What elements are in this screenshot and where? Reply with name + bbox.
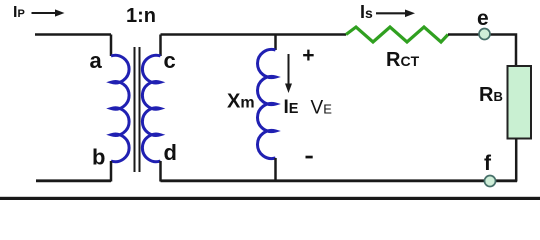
svg-text:IE: IE (284, 97, 299, 118)
label - polarity (306, 156, 313, 159)
svg-text:a: a (90, 48, 103, 73)
arrow Is current direction (376, 10, 415, 18)
arrow IE excitation current (285, 54, 292, 93)
wire secondary top stub (159, 35, 162, 57)
svg-text:Is: Is (360, 2, 373, 22)
transformer core line right (139, 47, 141, 172)
wire primary top (35, 33, 111, 36)
transformer T1 secondary winding c-d (142, 55, 160, 161)
resistor RCT zigzag (346, 27, 448, 42)
svg-text:1:n: 1:n (126, 5, 156, 27)
wire primary top drop to winding a (110, 35, 113, 57)
svg-text:Xm: Xm (227, 91, 255, 113)
svg-text:c: c (164, 48, 176, 73)
wire RB bottom (515, 139, 518, 182)
arrow IP current direction (32, 9, 65, 16)
svg-text:e: e (477, 7, 489, 30)
svg-text:d: d (164, 140, 177, 165)
svg-text:f: f (484, 152, 492, 175)
bottom horizontal rule (0, 197, 540, 200)
transformer core line left (134, 47, 136, 172)
wire top right to RB (448, 35, 516, 67)
node e terminal (479, 29, 490, 40)
svg-text:+: + (302, 44, 314, 67)
wire secondary bottom (161, 179, 518, 182)
wire primary bottom (36, 179, 111, 182)
resistor RB burden (508, 66, 532, 139)
wire primary bottom stub (110, 161, 113, 182)
wire Xm top stub (274, 35, 277, 51)
inductor Xm magnetizing branch (257, 49, 275, 158)
wire secondary bottom stub (159, 161, 162, 182)
svg-text:b: b (92, 144, 105, 169)
node f terminal (485, 176, 496, 187)
transformer T1 primary winding a-b (111, 55, 129, 161)
wire secondary top (161, 33, 347, 36)
svg-text:VE: VE (311, 98, 333, 119)
wire Xm bottom stub (274, 158, 277, 182)
svg-text:RCT: RCT (386, 49, 420, 71)
